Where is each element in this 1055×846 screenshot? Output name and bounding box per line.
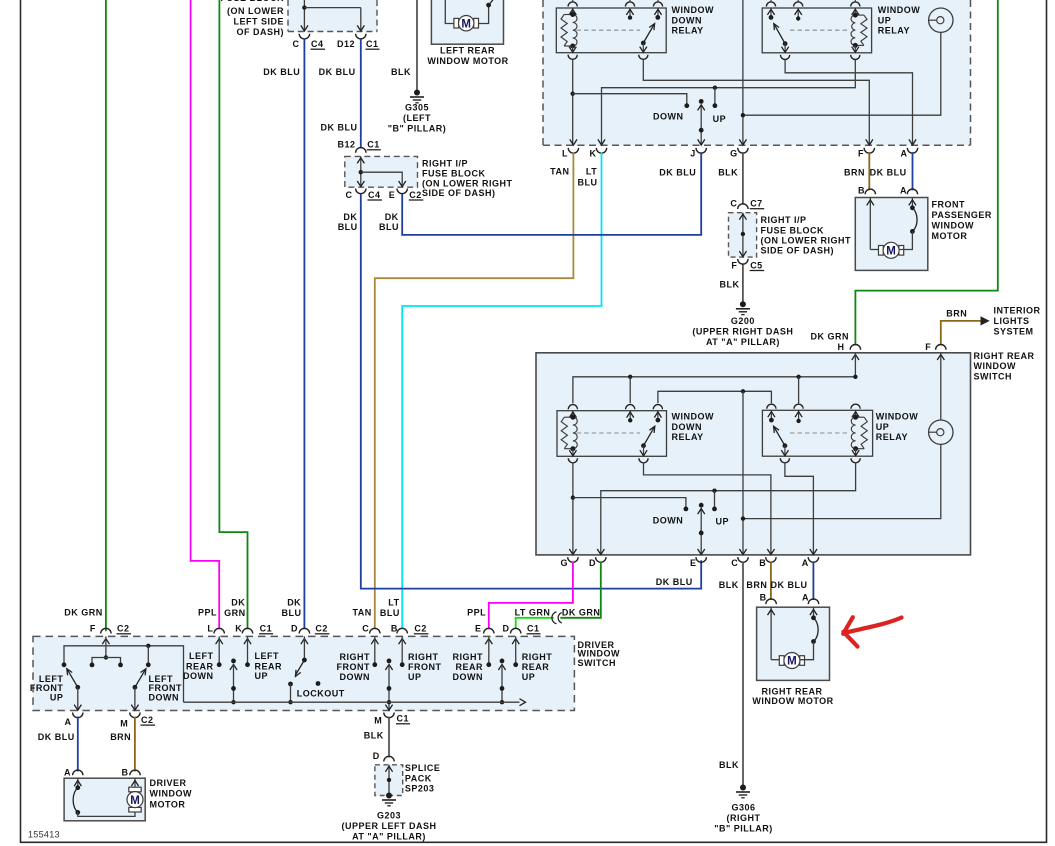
svg-text:L: L xyxy=(562,148,568,158)
pin H connector of right rear window switch xyxy=(838,342,861,360)
wire BRN from pin B of right rear switch to right rear window motor pin B xyxy=(746,561,771,600)
svg-text:RELAY: RELAY xyxy=(878,26,910,36)
svg-text:WINDOW: WINDOW xyxy=(878,5,921,15)
svg-text:RIGHT I/P: RIGHT I/P xyxy=(422,158,468,168)
svg-text:"B" PILLAR): "B" PILLAR) xyxy=(714,824,773,834)
wire BLK from pin C of right rear switch to ground G306 xyxy=(719,561,743,785)
svg-text:D: D xyxy=(373,751,380,761)
svg-text:PASSENGER: PASSENGER xyxy=(932,210,992,220)
svg-text:G305: G305 xyxy=(405,102,429,112)
svg-text:B: B xyxy=(760,592,767,602)
svg-text:DRIVER: DRIVER xyxy=(150,778,187,788)
svg-text:M: M xyxy=(886,246,896,258)
svg-text:SWITCH: SWITCH xyxy=(974,371,1013,381)
wire BLK G200 xyxy=(720,265,743,303)
svg-text:(ON LOWER RIGHT: (ON LOWER RIGHT xyxy=(422,178,513,188)
svg-text:UP: UP xyxy=(522,672,536,682)
wire TAN xyxy=(375,152,574,629)
svg-text:G203: G203 xyxy=(377,811,401,821)
pin arcs below window up relay (lower) xyxy=(780,458,860,463)
ground G306 xyxy=(714,785,773,834)
driver window motor pin B connector xyxy=(122,767,141,777)
svg-text:C: C xyxy=(293,39,300,49)
svg-text:DK BLU: DK BLU xyxy=(319,67,356,77)
svg-text:E: E xyxy=(389,190,396,200)
svg-text:E: E xyxy=(690,558,697,568)
svg-text:WINDOW: WINDOW xyxy=(672,412,715,422)
svg-text:DOWN: DOWN xyxy=(672,422,703,432)
svg-text:TAN: TAN xyxy=(352,607,371,617)
svg-text:PPL: PPL xyxy=(198,607,217,617)
driver switch common bottom bus with arrow xyxy=(184,699,526,706)
svg-text:DK GRN: DK GRN xyxy=(562,607,601,617)
svg-text:LEFT: LEFT xyxy=(189,651,214,661)
svg-text:A: A xyxy=(802,592,809,602)
svg-text:UP: UP xyxy=(878,16,892,26)
pin arcs below window down relay (top block) xyxy=(568,55,648,60)
svg-text:G: G xyxy=(730,148,738,158)
front passenger window motor internals xyxy=(867,198,917,259)
svg-text:LT: LT xyxy=(586,166,597,176)
svg-text:WINDOW: WINDOW xyxy=(932,221,975,231)
svg-text:MOTOR: MOTOR xyxy=(150,799,186,809)
right I/P fuse block (on lower right side of dash) C7/C5 instance xyxy=(729,213,852,257)
hand-drawn red arrow pointing at right rear window motor xyxy=(843,617,901,646)
lamp in left rear window switch xyxy=(929,8,953,32)
RIGHT FRONT UP contact from pin B xyxy=(400,636,442,681)
window down relay box (right rear window switch) xyxy=(557,411,714,457)
front passenger window motor pin A connector xyxy=(900,185,918,195)
svg-text:B: B xyxy=(858,185,865,195)
wire from window down relay coil to pin G with DOWN contact branch (lower) xyxy=(571,463,689,555)
left rear window motor internals: motor M and switch contact xyxy=(445,0,494,31)
inline connector between LT GRN and DK GRN wires xyxy=(552,612,562,624)
illumination lamp (right rear window switch) xyxy=(929,353,953,445)
UP text top block xyxy=(713,114,727,124)
svg-text:GRN: GRN xyxy=(224,608,246,618)
svg-text:F: F xyxy=(925,342,931,352)
bus wire from pin H to relay coil tops (right rear switch) xyxy=(573,353,858,404)
pin labels L K J G F A (top block) xyxy=(562,148,908,158)
switch moving blade from pin J (top block) xyxy=(698,99,705,145)
svg-text:L: L xyxy=(207,624,213,634)
svg-text:FUSE BLOCK: FUSE BLOCK xyxy=(761,225,825,235)
svg-text:FRONT: FRONT xyxy=(932,199,966,209)
svg-text:155413: 155413 xyxy=(28,829,60,839)
svg-text:DK BLU: DK BLU xyxy=(38,732,75,742)
svg-text:G306: G306 xyxy=(731,802,755,812)
svg-text:WINDOW: WINDOW xyxy=(150,789,193,799)
svg-text:DK BLU: DK BLU xyxy=(656,577,693,587)
svg-text:RELAY: RELAY xyxy=(672,432,704,442)
svg-text:TAN: TAN xyxy=(550,166,569,176)
svg-text:C4: C4 xyxy=(368,190,381,200)
svg-text:SIDE OF DASH): SIDE OF DASH) xyxy=(761,246,835,256)
svg-text:BRN: BRN xyxy=(110,732,131,742)
svg-text:C2: C2 xyxy=(414,624,427,634)
right rear window motor pin B connector xyxy=(760,592,777,604)
connector C1 pin D12 of left I/P fuse block xyxy=(337,34,380,50)
svg-text:A: A xyxy=(901,148,908,158)
svg-text:LIGHTS: LIGHTS xyxy=(994,316,1030,326)
window up relay switch (top block) xyxy=(767,8,848,53)
pin arcs above window down relay (lower) xyxy=(568,405,662,410)
svg-text:REAR: REAR xyxy=(522,662,550,672)
wire colour labels below top block xyxy=(550,166,906,187)
svg-text:BLK: BLK xyxy=(720,280,740,290)
svg-text:C2: C2 xyxy=(141,715,154,725)
svg-text:D: D xyxy=(291,624,298,634)
ground G305 xyxy=(388,90,447,134)
left rear switch moving blade xyxy=(230,659,237,705)
svg-text:D: D xyxy=(589,558,596,568)
svg-text:UP: UP xyxy=(716,517,730,527)
pin arcs above window up relay (lower) xyxy=(767,404,860,409)
wire DK BLU driver switch pin A to driver window motor pin A xyxy=(38,717,78,772)
svg-text:C1: C1 xyxy=(527,624,540,634)
svg-text:AT "A" PILLAR): AT "A" PILLAR) xyxy=(352,831,426,841)
wire DK BLU from pin A of right rear switch to right rear window motor pin A xyxy=(771,561,814,600)
svg-text:DK BLU: DK BLU xyxy=(870,168,907,178)
svg-text:C1: C1 xyxy=(397,714,410,724)
svg-text:LEFT SIDE: LEFT SIDE xyxy=(233,16,284,26)
svg-text:C1: C1 xyxy=(260,624,273,634)
bus wire connecting relay switch commons with pin C drop (right rear switch) xyxy=(658,389,772,554)
svg-text:FUSE BLOCK: FUSE BLOCK xyxy=(221,0,285,3)
LEFT REAR DOWN contact from pin L xyxy=(183,636,222,681)
svg-text:RIGHT: RIGHT xyxy=(522,652,553,662)
svg-text:RIGHT I/P: RIGHT I/P xyxy=(761,215,807,225)
connector C2 pin E below fuse block xyxy=(389,189,424,201)
svg-text:PPL: PPL xyxy=(467,607,486,617)
svg-text:UP: UP xyxy=(408,672,422,682)
svg-text:RIGHT REAR: RIGHT REAR xyxy=(974,351,1035,361)
driver window switch block xyxy=(33,636,620,710)
svg-text:DOWN: DOWN xyxy=(183,671,214,681)
svg-text:BLU: BLU xyxy=(282,608,302,618)
svg-text:RIGHT: RIGHT xyxy=(453,652,484,662)
wire DK BLU C4 xyxy=(263,39,304,630)
driver window motor box xyxy=(64,778,192,821)
driver switch top pin connectors with arcs and arrows xyxy=(101,628,521,644)
switch moving blade from pin E (lower) xyxy=(698,503,705,555)
svg-text:DOWN: DOWN xyxy=(149,692,180,702)
LEFT REAR UP contact from pin K xyxy=(245,636,282,681)
svg-text:H: H xyxy=(838,342,845,352)
svg-text:RIGHT: RIGHT xyxy=(340,652,371,662)
svg-text:F: F xyxy=(858,148,864,158)
wire labels DK BLU below fuse block xyxy=(338,212,399,232)
svg-text:OF DASH): OF DASH) xyxy=(237,27,285,37)
svg-text:LT GRN: LT GRN xyxy=(515,607,551,617)
window down relay switch (top block) xyxy=(577,8,662,53)
svg-text:AT "A" PILLAR): AT "A" PILLAR) xyxy=(706,337,780,347)
svg-text:DK BLU: DK BLU xyxy=(771,580,808,590)
wire PPL left xyxy=(191,0,220,629)
wire PPL G-E xyxy=(489,561,573,629)
ground G200 xyxy=(692,301,793,347)
svg-text:DOWN: DOWN xyxy=(653,112,684,122)
svg-text:RIGHT: RIGHT xyxy=(408,652,439,662)
svg-text:G: G xyxy=(560,558,568,568)
svg-text:B: B xyxy=(391,624,398,634)
svg-text:DOWN: DOWN xyxy=(672,16,703,26)
svg-text:C4: C4 xyxy=(311,39,324,49)
svg-text:DK GRN: DK GRN xyxy=(64,607,103,617)
connector C7 pin C into fuse block xyxy=(730,199,764,210)
sheet number xyxy=(28,829,60,839)
lamp return wire to pin C wire (lower block) xyxy=(741,444,941,520)
svg-text:C: C xyxy=(362,624,369,634)
left I/P fuse block (top left, cut off at top) xyxy=(221,0,378,37)
right rear window motor pin A connector xyxy=(802,592,819,604)
DOWN text lower xyxy=(653,516,684,526)
fuse block C7/C5 internal wire xyxy=(739,213,746,257)
svg-text:E: E xyxy=(475,624,482,634)
wire from window down relay coil to pin L with DOWN contact branch (top block) xyxy=(571,59,690,144)
window up relay box (right rear window switch) xyxy=(762,410,918,456)
RIGHT FRONT DOWN contact from pin C xyxy=(337,636,378,681)
driver window motor internals xyxy=(73,778,143,816)
wire BLK G xyxy=(742,152,744,204)
svg-text:BLU: BLU xyxy=(338,222,358,232)
INTERIOR LIGHTS SYSTEM label xyxy=(994,305,1041,336)
right I/P fuse block (on lower right side of dash) upper instance xyxy=(345,156,513,198)
RIGHT REAR DOWN contact from pin E xyxy=(453,636,492,681)
svg-text:DK: DK xyxy=(231,597,245,607)
svg-text:WINDOW: WINDOW xyxy=(578,649,621,659)
svg-text:C2: C2 xyxy=(315,624,328,634)
left I/P fuse block internal wiring xyxy=(301,0,365,31)
svg-text:BRN: BRN xyxy=(746,580,767,590)
window up relay middle pin (lower) xyxy=(795,410,802,423)
right rear window motor box xyxy=(752,607,833,706)
svg-text:BLK: BLK xyxy=(364,731,384,741)
svg-text:SIDE OF DASH): SIDE OF DASH) xyxy=(422,188,496,198)
svg-text:C1: C1 xyxy=(367,140,380,150)
svg-text:B: B xyxy=(759,558,766,568)
right rear switch moving blade xyxy=(498,659,505,705)
wire DK GRN left xyxy=(105,0,107,631)
svg-text:BLU: BLU xyxy=(578,178,598,188)
svg-text:M: M xyxy=(461,18,471,30)
ground G203 xyxy=(341,793,436,842)
wire DK BLU J xyxy=(402,152,701,235)
svg-text:DK: DK xyxy=(287,597,301,607)
window up relay coil (lower) xyxy=(851,410,867,456)
driver switch pin labels F/C2 L K/C1 D/C2 C B/C2 E D/C1 xyxy=(90,624,541,634)
bus wire from pin D to window up relay coil with UP contact (lower) xyxy=(601,462,856,554)
pin arcs above window up relay (top block) xyxy=(766,0,860,7)
svg-text:C7: C7 xyxy=(750,199,763,209)
svg-text:FRONT: FRONT xyxy=(337,662,371,672)
window down relay coil (lower) xyxy=(561,411,577,457)
svg-text:(ON LOWER: (ON LOWER xyxy=(227,6,284,16)
wire DK BLU C4-E xyxy=(361,194,701,588)
svg-text:UP: UP xyxy=(876,422,890,432)
wire BLK driver switch pin M/C1 to splice pack SP203 xyxy=(364,717,389,761)
svg-text:(UPPER LEFT DASH: (UPPER LEFT DASH xyxy=(341,821,436,831)
wire DK GRN / LT GRN from pin D of right rear switch to driver switch pin D xyxy=(516,561,601,629)
svg-text:INTERIOR: INTERIOR xyxy=(994,305,1041,315)
wire BRN from right rear switch pin F to interior lights system xyxy=(941,308,990,345)
svg-text:F: F xyxy=(731,260,737,270)
svg-text:LOCKOUT: LOCKOUT xyxy=(297,688,345,698)
svg-text:BRN: BRN xyxy=(844,168,865,178)
svg-text:BLU: BLU xyxy=(379,222,399,232)
DOWN text top block xyxy=(653,112,684,122)
lamp return wire to pin G wire (top block) xyxy=(741,32,941,117)
pin arcs above window down relay (top block) xyxy=(568,0,663,7)
bottom edge pins of left rear window switch: arrows and connector arcs xyxy=(568,139,918,153)
svg-text:D: D xyxy=(503,624,510,634)
svg-text:(ON LOWER RIGHT: (ON LOWER RIGHT xyxy=(761,235,852,245)
svg-text:M: M xyxy=(130,795,140,807)
wire bus from pin K to window up relay coil with UP contact (top block) xyxy=(602,60,856,145)
svg-text:C5: C5 xyxy=(750,260,763,270)
svg-text:M: M xyxy=(374,716,382,726)
svg-text:G200: G200 xyxy=(731,316,755,326)
svg-text:BRN: BRN xyxy=(946,308,967,318)
LEFT FRONT UP switch xyxy=(30,669,82,711)
front passenger window motor pin B connector xyxy=(858,185,876,195)
connector C1 pin B12 into fuse block xyxy=(337,140,380,153)
svg-text:WINDOW: WINDOW xyxy=(672,5,715,15)
svg-text:WINDOW: WINDOW xyxy=(876,412,919,422)
LEFT FRONT DOWN switch xyxy=(131,669,182,711)
wire up relay switch to pin A xyxy=(785,60,912,145)
svg-text:MOTOR: MOTOR xyxy=(932,231,968,241)
svg-text:BLK: BLK xyxy=(718,168,738,178)
svg-text:FUSE BLOCK: FUSE BLOCK xyxy=(422,169,486,179)
svg-text:A: A xyxy=(64,767,71,777)
right I/P fuse block internal wiring (upper instance) xyxy=(357,156,406,186)
bottom edge pins of right rear window switch: arrows and connector arcs xyxy=(568,549,819,562)
svg-text:(UPPER RIGHT DASH: (UPPER RIGHT DASH xyxy=(692,326,793,336)
svg-text:FRONT: FRONT xyxy=(408,662,442,672)
svg-text:LT: LT xyxy=(388,597,399,607)
svg-text:C: C xyxy=(346,190,353,200)
svg-text:M: M xyxy=(120,718,128,728)
svg-text:RELAY: RELAY xyxy=(672,26,704,36)
svg-text:UP: UP xyxy=(50,692,64,702)
wire BRN driver switch pin M to driver window motor pin B xyxy=(110,717,135,772)
left rear window switch block (cut off at top) xyxy=(543,0,971,145)
right rear window motor internals xyxy=(768,607,819,668)
UP text lower xyxy=(716,517,730,527)
wire DK GRN right xyxy=(811,0,998,345)
right rear window switch block xyxy=(536,351,1035,555)
driver window motor pin A connector xyxy=(64,767,83,777)
splice pack arc xyxy=(384,756,394,761)
svg-text:LEFT REAR: LEFT REAR xyxy=(440,46,495,56)
connector C4 pin C below fuse block xyxy=(346,189,383,201)
svg-text:BLK: BLK xyxy=(719,580,739,590)
svg-text:C: C xyxy=(730,199,737,209)
svg-text:A: A xyxy=(802,558,809,568)
window up relay box (left rear window switch) xyxy=(762,5,920,53)
svg-text:SWITCH: SWITCH xyxy=(578,658,617,668)
pin arcs below window down relay (lower) xyxy=(568,458,648,463)
svg-text:A: A xyxy=(65,717,72,727)
svg-text:UP: UP xyxy=(713,114,727,124)
driver switch incoming wire colour labels xyxy=(64,597,600,617)
wire DK GRN 2 left xyxy=(219,0,247,629)
svg-text:C2: C2 xyxy=(409,190,422,200)
svg-text:C1: C1 xyxy=(366,39,379,49)
connector C5 pin F below fuse block xyxy=(731,259,764,271)
window down relay middle pin (lower) xyxy=(627,411,634,423)
svg-text:C2: C2 xyxy=(117,624,130,634)
svg-text:DOWN: DOWN xyxy=(340,672,371,682)
svg-text:DK: DK xyxy=(343,212,357,222)
svg-text:DOWN: DOWN xyxy=(453,672,484,682)
wire down relay switch to pin B lower xyxy=(644,463,771,555)
svg-text:K: K xyxy=(590,148,597,158)
svg-text:WINDOW MOTOR: WINDOW MOTOR xyxy=(752,696,833,706)
svg-text:DK: DK xyxy=(385,212,399,222)
svg-text:A: A xyxy=(900,185,907,195)
svg-text:DK BLU: DK BLU xyxy=(659,168,696,178)
pin labels G D E C B A (lower block) xyxy=(560,558,808,568)
splice pack internal wire xyxy=(385,765,392,796)
right front switch moving blade to pin M/C1 xyxy=(385,659,392,711)
wire DK BLU A xyxy=(912,152,914,190)
svg-text:F: F xyxy=(90,624,96,634)
svg-text:PACK: PACK xyxy=(405,773,432,783)
svg-text:SPLICE: SPLICE xyxy=(405,763,441,773)
wire LT BLU xyxy=(402,152,601,629)
left rear window motor box xyxy=(427,0,508,66)
svg-text:B12: B12 xyxy=(337,140,355,150)
LOCKOUT switch from pin D xyxy=(288,636,345,704)
svg-text:RELAY: RELAY xyxy=(876,432,908,442)
svg-text:K: K xyxy=(235,624,242,634)
wire BRN F xyxy=(868,152,870,190)
svg-text:UP: UP xyxy=(255,671,269,681)
svg-text:BLK: BLK xyxy=(391,67,411,77)
connector C4 pin C of left I/P fuse block xyxy=(293,34,326,50)
window down relay switch (lower) xyxy=(577,411,662,457)
wire to pin G (BLK) through left rear window switch xyxy=(742,0,744,145)
svg-text:DOWN: DOWN xyxy=(653,516,684,526)
front passenger window motor box xyxy=(855,198,992,271)
driver switch bottom pin M/C1 connector xyxy=(374,713,410,726)
window up relay middle pin (top block) xyxy=(795,8,802,21)
svg-text:WINDOW: WINDOW xyxy=(974,361,1017,371)
svg-text:BLU: BLU xyxy=(380,608,400,618)
svg-text:DK BLU: DK BLU xyxy=(321,122,358,132)
svg-text:WINDOW MOTOR: WINDOW MOTOR xyxy=(427,56,508,66)
wire BLK from left rear window motor circuit to ground G305 xyxy=(391,0,417,91)
svg-text:D12: D12 xyxy=(337,39,355,49)
svg-text:(LEFT: (LEFT xyxy=(403,113,431,123)
svg-text:(RIGHT: (RIGHT xyxy=(727,813,761,823)
RIGHT REAR UP contact from pin D xyxy=(513,636,552,681)
wire DK BLU D12-B12 xyxy=(319,39,361,149)
svg-text:LEFT: LEFT xyxy=(255,651,280,661)
window down relay coil (top block) xyxy=(561,8,577,53)
svg-text:DK BLU: DK BLU xyxy=(263,67,300,77)
driver switch bottom pin A connector xyxy=(65,713,84,727)
window down relay middle pin (top block) xyxy=(626,8,633,20)
svg-text:J: J xyxy=(690,148,696,158)
driver switch bottom pin M/C2 connector xyxy=(120,713,155,729)
driver switch feed bus from pin F with centre-off contacts xyxy=(62,636,184,702)
svg-text:M: M xyxy=(787,656,797,668)
pin F connector of right rear window switch xyxy=(925,342,946,360)
pin arcs below window up relay (top block) xyxy=(781,55,860,60)
